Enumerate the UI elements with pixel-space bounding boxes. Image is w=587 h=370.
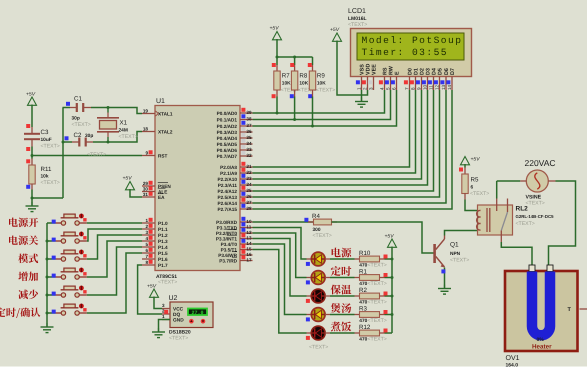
marker on LED D4 wire: [306, 317, 310, 321]
relay RL2 coil: [477, 208, 490, 232]
wire +5V to R5: [464, 164, 466, 175]
svg-text:R4: R4: [312, 213, 320, 220]
svg-text:P1.3: P1.3: [158, 239, 168, 244]
label LED D4 soup: [331, 303, 352, 313]
wire P2.1 to LCD D1: [253, 90, 416, 173]
wire C2 to XTAL2 pin 18: [93, 132, 142, 143]
svg-text:P3.0/RXD: P3.0/RXD: [216, 220, 237, 225]
svg-text:4: 4: [379, 87, 384, 90]
svg-text:6: 6: [145, 248, 148, 253]
wire R4 to Q1 base: [332, 222, 434, 253]
svg-text:30: 30: [143, 187, 149, 192]
svg-text:<TEXT>: <TEXT>: [368, 318, 387, 324]
pin C3 bottom: [31, 139, 33, 146]
svg-text:17: 17: [246, 258, 252, 263]
label AT89C51: [156, 274, 177, 286]
resistor R12: [359, 324, 387, 343]
resistor R8: [291, 71, 317, 94]
svg-text:P1.7: P1.7: [158, 263, 168, 268]
svg-text:NPN: NPN: [450, 251, 461, 257]
resistor R11: [29, 165, 60, 186]
label button3 mode: [18, 254, 38, 264]
svg-text:16: 16: [246, 252, 252, 257]
marker red below R7: [272, 94, 276, 98]
pin D0 (7) of LCD1: [404, 68, 413, 90]
svg-text:+5V: +5V: [270, 26, 280, 32]
marker blue at button5 left: [52, 292, 56, 296]
pin C3 top: [31, 127, 33, 134]
label button4 increase: [18, 272, 38, 282]
pin VSS (1) of LCD1: [356, 64, 365, 90]
marker red at R5 top: [459, 168, 463, 172]
svg-text:10K: 10K: [317, 81, 326, 87]
marker red at button1 right: [83, 218, 86, 221]
svg-text:LCD1: LCD1: [348, 8, 366, 15]
marker red at R1 right: [384, 273, 388, 277]
svg-text:13: 13: [441, 84, 446, 90]
resistor R10: [359, 250, 387, 269]
svg-text:8: 8: [145, 260, 148, 265]
pin VCC (3) of U2: [162, 303, 184, 313]
pin PSEN (29) of U1: [142, 181, 171, 189]
svg-text:14: 14: [447, 84, 452, 90]
svg-text:E: E: [394, 71, 400, 75]
wire Q1 collector to relay coil: [445, 231, 478, 236]
pin D4 (11) of LCD1: [428, 68, 437, 90]
svg-text:30p: 30p: [85, 133, 93, 139]
svg-text:<TEXT>: <TEXT>: [450, 258, 469, 264]
pin D7 (14) of LCD1: [446, 68, 455, 90]
svg-text:11: 11: [428, 85, 433, 90]
svg-text:<TEXT>: <TEXT>: [41, 180, 60, 186]
marker red at button5 right: [83, 290, 86, 293]
marker blue at button2 left: [52, 238, 56, 242]
pin R11 bottom: [31, 184, 33, 190]
svg-text:P1.0: P1.0: [158, 221, 168, 226]
svg-text:9: 9: [416, 87, 421, 90]
svg-text:14: 14: [246, 241, 252, 246]
wire button3 to P1.2: [87, 235, 142, 259]
wire P3.2 to LED D2: [253, 233, 312, 278]
marker red above R9: [308, 63, 312, 67]
svg-text:P3.4/T0: P3.4/T0: [221, 242, 238, 247]
pin P0.0/AD0 (39) of U1: [217, 108, 253, 116]
svg-text:<TEXT>: <TEXT>: [368, 263, 387, 269]
crystal X1: [97, 108, 138, 143]
svg-text:470: 470: [359, 299, 367, 305]
wire VSINE to heater right: [549, 181, 576, 265]
pin RST (9) of U1: [142, 150, 168, 158]
wire VSINE to relay common: [497, 181, 521, 199]
pin DQ (2) of U2: [162, 308, 181, 318]
wire RST net to U1 pin 9: [32, 155, 142, 157]
svg-text:22: 22: [246, 170, 252, 175]
switch button3: [47, 250, 87, 262]
pin P2.6/A14 (27) of U1: [217, 198, 252, 206]
svg-text:39: 39: [246, 110, 252, 115]
pin D6 (13) of LCD1: [440, 68, 449, 90]
svg-text:Q1: Q1: [450, 242, 459, 249]
ground for Q1: [438, 285, 451, 295]
marker blue at button6 left: [52, 310, 56, 314]
svg-text:30p: 30p: [72, 116, 80, 122]
svg-text:D5: D5: [437, 68, 443, 75]
marker blue at button4 left: [52, 274, 56, 278]
svg-text:P1.4: P1.4: [158, 245, 168, 250]
svg-text:<TEXT>: <TEXT>: [368, 281, 387, 287]
op-amp U1 microcontroller AT89C51 body: [155, 98, 240, 271]
svg-text:+5V: +5V: [471, 157, 481, 163]
svg-text:10K: 10K: [282, 81, 291, 87]
pin P1.0 (1) of U1: [142, 218, 168, 226]
svg-text:4: 4: [145, 236, 148, 241]
svg-text:28: 28: [246, 206, 252, 211]
svg-text:P2.5/A13: P2.5/A13: [217, 195, 237, 200]
LED D3: [311, 289, 325, 303]
wire P3.5 to LED D5: [253, 250, 312, 334]
svg-text:P0.4/AD4: P0.4/AD4: [217, 136, 238, 141]
svg-text:OV1: OV1: [506, 355, 520, 362]
pin E (6) of LCD1: [391, 71, 400, 90]
svg-text:34: 34: [246, 141, 252, 146]
ground for reset circuit: [26, 202, 39, 212]
pin XTAL2 (18) of U1: [142, 127, 173, 135]
svg-text:R12: R12: [359, 324, 371, 331]
pin P0.2/AD2 (37) of U1: [217, 121, 253, 129]
label LED D5 rice: [331, 322, 352, 332]
marker blue below R8: [290, 94, 294, 98]
pin D5 (12) of LCD1: [434, 68, 443, 90]
node C2 ground tap: [62, 141, 65, 144]
label Heater: [532, 343, 552, 350]
svg-text:27: 27: [246, 200, 252, 205]
LED D2: [311, 271, 325, 285]
svg-text:<TEXT>: <TEXT>: [348, 22, 367, 28]
svg-text:12: 12: [246, 230, 252, 235]
pin P0.4/AD4 (35) of U1: [217, 133, 253, 141]
wire P1.7 to U2 DQ: [138, 265, 162, 314]
svg-text:25: 25: [246, 188, 252, 193]
node crystal bottom junction: [107, 141, 110, 144]
svg-text:P1.1: P1.1: [158, 227, 168, 232]
marker on LED D1 wire: [306, 262, 310, 266]
svg-text:P0.0/AD0: P0.0/AD0: [217, 111, 238, 116]
source V1 VSINE 220VAC: [520, 158, 555, 207]
svg-text:10k: 10k: [41, 174, 49, 180]
wire P2.0 to LCD D0: [253, 90, 410, 167]
svg-text:10uF: 10uF: [41, 137, 52, 143]
label button1 power-on: [9, 218, 38, 228]
pin D1 (8) of LCD1: [410, 68, 419, 90]
marker blue at Q1 emitter: [441, 269, 445, 273]
wire R12 to +5V bus: [380, 332, 393, 334]
ground for U2: [152, 328, 165, 338]
svg-text:<TEXT>: <TEXT>: [158, 280, 177, 286]
svg-text:<TEXT>: <TEXT>: [526, 201, 545, 207]
label button5 decrease: [18, 290, 38, 300]
svg-text:P2.3/A11: P2.3/A11: [218, 183, 238, 188]
marker blue at C1 left: [66, 102, 70, 106]
svg-text:R9: R9: [317, 73, 325, 80]
pin P3.0/RXD (10) of U1: [216, 217, 252, 225]
marker red on C3 top wire: [26, 124, 30, 128]
svg-text:<TEXT>: <TEXT>: [309, 345, 328, 351]
wire LED D3 to R2: [325, 295, 360, 297]
wire P3.4 to LED D4: [253, 244, 312, 315]
ground for buttons: [41, 323, 54, 333]
wire C3 bottom to R11 top: [31, 147, 33, 159]
svg-text:P3.7/RD: P3.7/RD: [219, 259, 237, 264]
svg-text:P2.1/A9: P2.1/A9: [220, 171, 237, 176]
marker blue below R9: [308, 94, 312, 98]
svg-text:24M: 24M: [119, 128, 128, 134]
marker blue at button1 left: [52, 220, 56, 224]
pin P2.1/A9 (22) of U1: [220, 168, 252, 176]
svg-text:3: 3: [368, 87, 373, 90]
svg-text:23: 23: [246, 176, 252, 181]
wire R3 to +5V bus: [380, 314, 393, 316]
svg-text:P0.1/AD1: P0.1/AD1: [217, 118, 238, 123]
transistor Q1: [435, 236, 470, 268]
label TEXT under LED D5: [309, 345, 328, 351]
node RST junction: [31, 154, 34, 157]
marker red at R2 right: [384, 292, 388, 296]
svg-text:5: 5: [145, 242, 148, 247]
switch button6: [47, 304, 87, 316]
pin XTAL1 (19) of U1: [142, 109, 173, 117]
power +5V supply for reset circuit: [26, 92, 37, 106]
svg-text:VCC: VCC: [173, 307, 184, 313]
pin P2.3/A11 (24) of U1: [218, 180, 253, 188]
svg-text:G2RL-14B-CF-DC5: G2RL-14B-CF-DC5: [516, 214, 555, 219]
svg-text:19: 19: [143, 109, 149, 114]
relay RL2 switch: [497, 199, 508, 243]
marker red at button4 right: [83, 272, 86, 275]
marker red below C3: [26, 147, 30, 151]
svg-text:GND: GND: [173, 318, 184, 324]
wire R9 bottom to P0.2 net: [311, 90, 314, 128]
pin P2.4/A12 (25) of U1: [217, 186, 252, 194]
pin P1.3 (4) of U1: [142, 236, 168, 244]
svg-text:35: 35: [246, 135, 252, 140]
svg-text:P1.5: P1.5: [158, 251, 168, 256]
svg-text:+5V: +5V: [385, 234, 395, 240]
wire P2.3 to LCD D3: [253, 90, 428, 185]
label LED D3 keepwarm: [331, 285, 352, 295]
svg-text:470: 470: [359, 262, 367, 268]
wire +5V to C3 top: [31, 105, 33, 128]
label heater percent: [537, 337, 545, 343]
label button2 power-off: [9, 236, 38, 246]
marker blue at button3 left: [52, 256, 56, 260]
pin P1.7 (8) of U1: [142, 260, 168, 268]
pin P0.3/AD3 (36) of U1: [217, 127, 253, 135]
svg-text:C1: C1: [74, 96, 82, 103]
svg-text:7: 7: [145, 254, 148, 259]
svg-text:X1: X1: [120, 120, 128, 127]
svg-text:U2: U2: [169, 295, 178, 302]
svg-text:11: 11: [246, 225, 251, 230]
svg-text:<TEXT>: <TEXT>: [368, 337, 387, 343]
wire R7 bottom to P0.0 net: [276, 90, 279, 115]
marker on LED D2 wire: [306, 280, 310, 284]
svg-text:P1.2: P1.2: [158, 233, 168, 238]
pin P0.7/AD7 (32) of U1: [217, 151, 253, 159]
svg-text:P2.6/A14: P2.6/A14: [217, 201, 237, 206]
svg-text:13: 13: [246, 236, 252, 241]
svg-text:8: 8: [410, 87, 415, 90]
LCD screen: [357, 33, 464, 60]
pin VEE (3) of LCD1: [368, 64, 377, 90]
svg-text:2: 2: [362, 87, 367, 90]
wire LCD VDD to +5V: [337, 41, 368, 96]
wire R2 to +5V bus: [380, 295, 393, 297]
U2 down button: [201, 319, 206, 324]
wire button4 to P1.3: [87, 241, 142, 277]
switch button4: [47, 268, 87, 280]
pin P0.1/AD1 (38) of U1: [217, 114, 253, 122]
wire relay contact to heater left: [501, 242, 532, 265]
wire +5V bus for LED resistors: [391, 247, 394, 334]
svg-text:U1: U1: [156, 98, 165, 105]
resistor R9: [309, 71, 335, 94]
svg-text:+5V: +5V: [330, 27, 340, 33]
pin ALE (30) of U1: [142, 186, 167, 194]
marker red above R11: [26, 159, 30, 163]
node junction R11-ground / C1C2 return: [31, 197, 34, 200]
svg-text:9: 9: [145, 151, 148, 156]
marker red at button3 right: [83, 254, 86, 257]
pin P3.1/TXD (11) of U1: [217, 222, 253, 230]
marker blue at C2 left: [65, 136, 69, 140]
svg-text:<TEXT>: <TEXT>: [41, 144, 60, 150]
wire R5 to relay coil top: [465, 200, 478, 211]
svg-text:<TEXT>: <TEXT>: [169, 336, 188, 342]
wire Q1 emitter to ground: [444, 268, 446, 289]
svg-text:D7: D7: [450, 68, 456, 75]
svg-text:XTAL1: XTAL1: [158, 112, 173, 117]
wire P2.6 to LCD D6: [253, 90, 447, 203]
wire LED D2 to R1: [325, 277, 360, 279]
pin GND (1) of U2: [162, 314, 184, 324]
svg-text:VEE: VEE: [371, 64, 377, 75]
svg-text:Timer: 03:55: Timer: 03:55: [362, 47, 449, 58]
marker red above R8: [290, 63, 294, 67]
svg-text:24: 24: [246, 182, 252, 187]
pin P3.6/WR (16) of U1: [218, 250, 252, 258]
svg-text:P1.6: P1.6: [158, 257, 168, 262]
svg-text:P2.2/A10: P2.2/A10: [217, 177, 237, 182]
svg-text:R5: R5: [471, 177, 479, 184]
wire R1 to +5V bus: [380, 277, 393, 279]
pin P3.7/RD (17) of U1: [219, 255, 252, 263]
svg-text:R1: R1: [359, 269, 367, 276]
resistor R4: [308, 213, 337, 239]
svg-text:R3: R3: [359, 306, 367, 313]
label button6 confirm: [0, 308, 40, 319]
svg-text:<TEXT>: <TEXT>: [516, 221, 535, 227]
marker blue below R11: [26, 185, 30, 189]
resistor R1: [359, 269, 387, 288]
heater terminal right: [547, 265, 553, 272]
wire P0.0 to LCD RS: [253, 90, 385, 113]
power +5V for R5: [461, 157, 481, 165]
pin P1.1 (2) of U1: [142, 224, 168, 232]
wire LED D5 to R12: [325, 332, 360, 334]
power +5V for LED resistors: [385, 234, 397, 248]
marker red at button6 right: [83, 308, 86, 311]
relay RL2 body: [478, 205, 555, 235]
switch button1: [47, 214, 87, 226]
U2 temperature display: [188, 309, 207, 316]
svg-text:RL2: RL2: [516, 206, 529, 213]
svg-text:+5V: +5V: [26, 92, 36, 98]
marker red at R10 right: [384, 255, 388, 259]
marker red at button2 right: [83, 236, 86, 239]
wire button2 to P1.1: [87, 229, 142, 241]
label LED D2 timer: [331, 266, 352, 276]
capacitor C2: [63, 132, 106, 158]
pin P3.5/T1 (15) of U1: [221, 244, 253, 252]
wire button common bus to ground: [46, 223, 49, 327]
svg-text:6: 6: [391, 87, 396, 90]
svg-text:<TEXT>: <TEXT>: [313, 233, 332, 239]
svg-text:1: 1: [356, 87, 361, 90]
wire P3.0 to R4: [253, 221, 314, 223]
power +5V for pull-ups: [270, 26, 282, 40]
wire P0.2 to LCD E: [253, 90, 397, 126]
svg-text:31: 31: [143, 192, 149, 197]
label LED D1 power: [332, 248, 352, 258]
LCD1 reference labels: [348, 8, 367, 28]
svg-text:P3.3/INT1: P3.3/INT1: [216, 237, 237, 242]
capacitor C1: [63, 96, 92, 129]
svg-text:XTAL2: XTAL2: [158, 130, 173, 135]
pin RS (4) of LCD1: [379, 67, 388, 90]
pin VDD (2) of LCD1: [362, 64, 371, 90]
svg-text:+5V: +5V: [147, 284, 157, 290]
wire P0.1 to LCD RW: [253, 90, 391, 120]
svg-text:R11: R11: [41, 166, 52, 173]
svg-text:P0.6/AD6: P0.6/AD6: [217, 148, 238, 153]
node crystal top junction: [107, 106, 110, 109]
svg-text:27.0: 27.0: [191, 310, 203, 316]
wire P2.5 to LCD D5: [253, 90, 440, 197]
pin P2.7/A15 (28) of U1: [217, 204, 252, 212]
U2 up button: [189, 319, 194, 324]
svg-text:P0.3/AD3: P0.3/AD3: [217, 130, 238, 135]
svg-text:Model: PotSoup: Model: PotSoup: [362, 35, 463, 46]
svg-text:C2: C2: [74, 132, 82, 139]
wire button5 to P1.4: [87, 247, 142, 295]
svg-text:EA: EA: [158, 195, 165, 200]
svg-text:P2.7/A15: P2.7/A15: [217, 207, 237, 212]
heater element tube: [532, 272, 550, 336]
wire +5V to EA pin 31: [130, 189, 142, 197]
heater terminal left: [529, 265, 535, 272]
wire P3.3 to LED D3: [253, 239, 312, 297]
switch button2: [47, 232, 87, 244]
pin R11 top: [31, 159, 33, 166]
pin P3.3/INT1 (13) of U1: [216, 233, 253, 241]
svg-text:470: 470: [359, 318, 367, 324]
pin P1.6 (7) of U1: [142, 254, 168, 262]
wire R8 bottom to P0.1 net: [293, 90, 296, 121]
LED D5: [311, 326, 325, 340]
wire C1 to XTAL1 pin 19: [91, 108, 142, 114]
svg-text:220VAC: 220VAC: [525, 158, 556, 168]
resistor R3: [359, 306, 387, 325]
